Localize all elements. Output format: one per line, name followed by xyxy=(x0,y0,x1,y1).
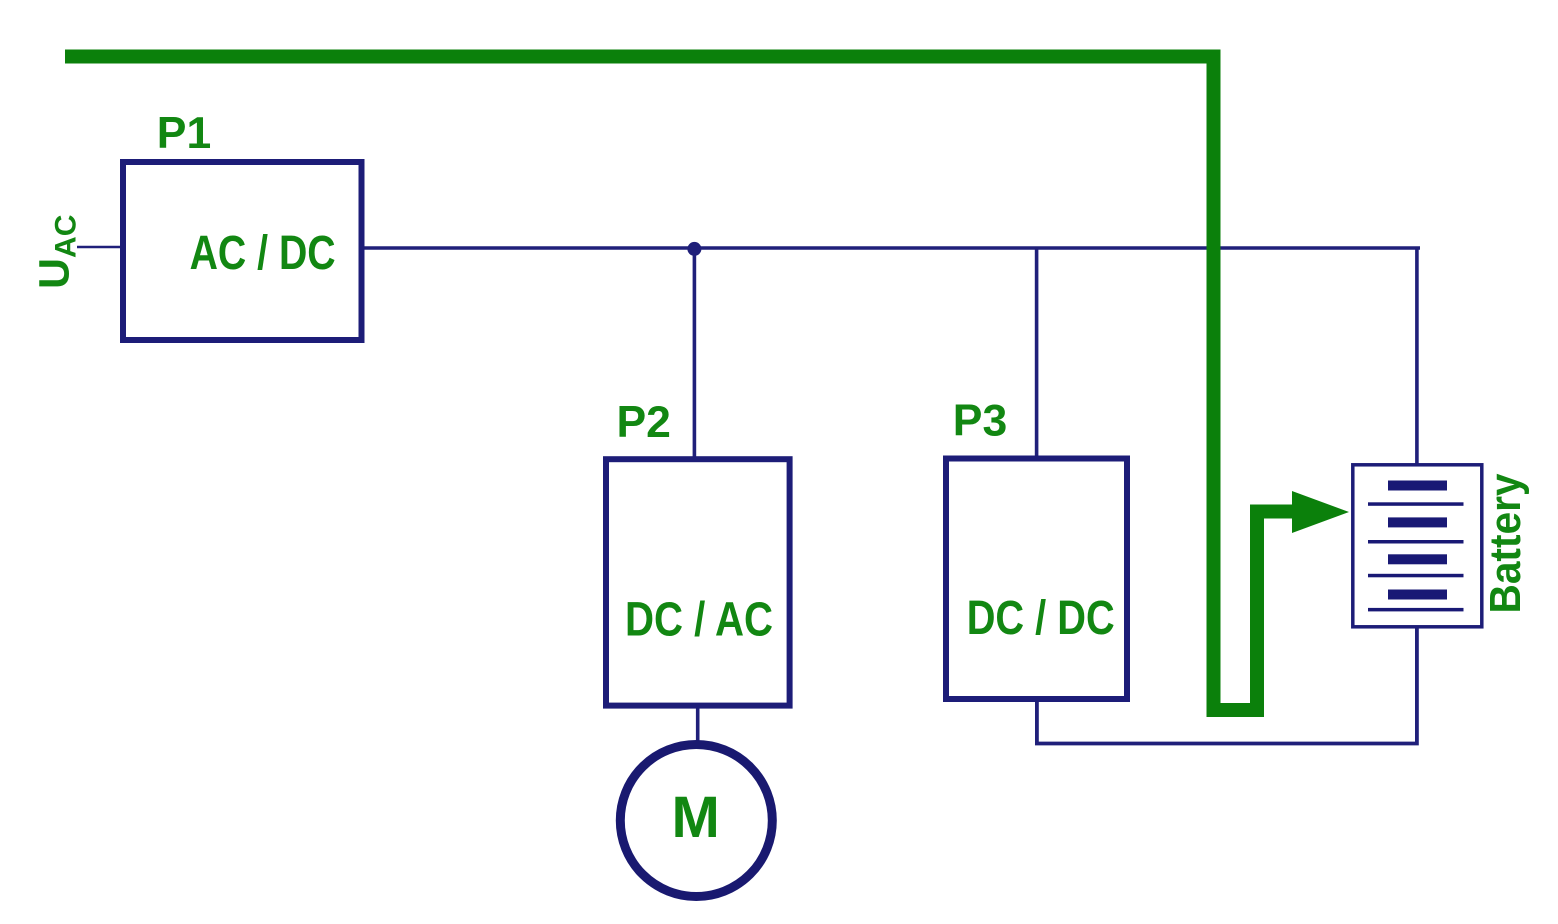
wire: drop from bus to P2 xyxy=(693,248,697,459)
wire: P2 to motor xyxy=(696,708,700,748)
wire: drop from bus to Battery top xyxy=(1415,248,1419,465)
battery cell 4 plate thick xyxy=(1388,590,1447,600)
svg-text:P2: P2 xyxy=(616,398,670,447)
wire: drop from bus to P3 xyxy=(1035,248,1039,458)
svg-text:M: M xyxy=(672,785,720,850)
battery cell 2 plate thick xyxy=(1388,517,1447,527)
converter P3 box xyxy=(946,459,1127,700)
svg-text:P3: P3 xyxy=(953,397,1007,446)
battery cell 1 plate thick xyxy=(1388,481,1447,491)
green arrowhead into battery xyxy=(1292,491,1349,533)
svg-text:Battery: Battery xyxy=(1482,474,1530,614)
svg-text:P1: P1 xyxy=(157,109,211,158)
battery cell 1 plate thin xyxy=(1368,502,1464,506)
wire: DC bus from P1 to right drop xyxy=(364,246,1420,250)
label Battery xyxy=(1482,474,1530,614)
battery cell 2 plate thin xyxy=(1368,540,1464,544)
converter P2 box xyxy=(606,459,790,705)
svg-text:DC / DC: DC / DC xyxy=(967,592,1115,645)
battery cell 4 plate thin xyxy=(1368,608,1464,612)
converter P1 box xyxy=(123,162,362,340)
wire: return path P3 bottom to Battery bottom xyxy=(1037,628,1417,744)
battery cell 3 plate thin xyxy=(1368,574,1464,578)
battery box xyxy=(1353,465,1482,627)
motor M circle xyxy=(620,745,772,897)
node junction dot at bus/P2 xyxy=(687,242,701,256)
battery cell 3 plate thick xyxy=(1388,554,1447,564)
node U_AC input label xyxy=(31,215,83,289)
svg-text:AC / DC: AC / DC xyxy=(190,227,336,280)
svg-text:DC / AC: DC / AC xyxy=(625,594,773,647)
wire: AC input stub to P1 xyxy=(77,246,121,249)
wire: thick green charge path xyxy=(65,57,1296,711)
